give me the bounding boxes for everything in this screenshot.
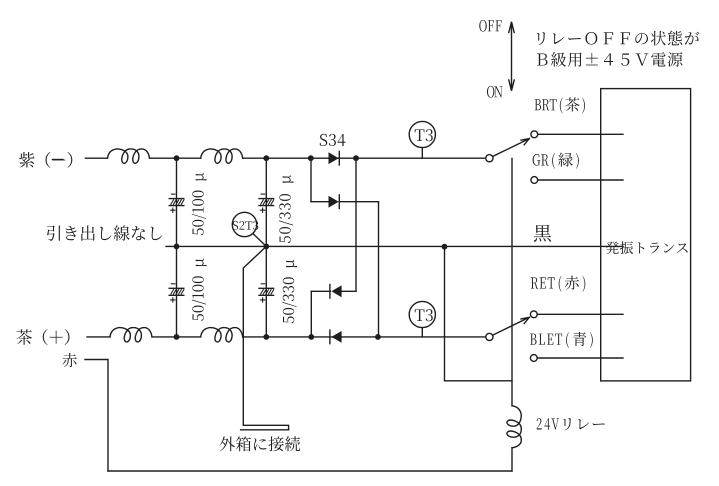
wire: middle rail (no lead-out) <box>166 245 623 247</box>
wire: top rail from purple(-) <box>85 157 485 159</box>
capacitor C4 50/330u <box>259 288 274 295</box>
label no lead-out line <box>47 225 162 240</box>
wire: vertical x=311.3 D3 to bottom rail <box>310 291 312 337</box>
switch SW2 common <box>486 333 493 340</box>
label S34 <box>320 134 346 146</box>
contact BLET <box>530 355 537 362</box>
thermistor T3 top <box>409 121 435 147</box>
value label C1 <box>192 173 207 235</box>
switch SW1 common <box>486 155 493 162</box>
label 24V relay <box>537 418 605 430</box>
note: relay OFF state <box>537 31 699 46</box>
label BRT(brown) <box>535 97 585 113</box>
contact RET <box>530 311 537 318</box>
value label C4 <box>282 260 297 324</box>
inductor L2 <box>201 149 243 163</box>
contact GR <box>531 177 538 184</box>
wire: switch linkage vertical <box>511 159 513 406</box>
diode D4 on bottom rail (reversed) <box>329 330 331 344</box>
inductor L3 <box>110 328 152 342</box>
label oscillation transformer <box>606 241 688 254</box>
wire: bottom return <box>108 470 512 472</box>
wire: red lead <box>85 360 108 472</box>
label GR(green) <box>533 153 579 169</box>
switch SW2 arm <box>493 317 530 335</box>
wire: vertical x=356 top rail to D3 <box>355 158 357 291</box>
diode D3 row (reversed) <box>311 290 356 292</box>
inductor L4 <box>201 328 243 342</box>
value label C3 <box>192 258 207 320</box>
label: connect to outer case <box>220 436 301 451</box>
wire: relay feed <box>445 380 513 382</box>
relay coil <box>507 406 521 448</box>
inductor L1 <box>108 149 150 163</box>
capacitor C1 50/100u <box>169 199 184 206</box>
oscillation transformer box <box>601 89 691 381</box>
label ON <box>487 86 503 98</box>
diode D1 S34 <box>329 152 339 164</box>
chassis bar <box>241 429 289 431</box>
label black wire <box>534 225 551 242</box>
S2T3 circle <box>232 212 256 236</box>
label red <box>63 353 77 367</box>
switch SW1 arm <box>493 139 530 157</box>
thermistor T3 bottom <box>409 301 435 327</box>
wire: chassis branch <box>243 246 288 429</box>
label purple(-) <box>19 152 72 168</box>
value label C2 <box>279 175 294 243</box>
wire: vertical x=311 top to D2 <box>310 158 312 202</box>
label OFF <box>479 20 501 32</box>
diode D2 row <box>311 201 379 203</box>
node junction dots <box>174 155 180 161</box>
label RET(red) <box>531 276 586 292</box>
OFF/ON actuation arrow <box>509 22 514 91</box>
wire: bottom rail from brown(+) <box>87 336 486 338</box>
capacitor C2 50/330u <box>259 199 274 206</box>
wire: filter vertical A x=176.5 <box>176 158 178 337</box>
wire: black tap vertical x=444.5 <box>444 246 446 380</box>
wire: S2T3 lead to node <box>253 233 266 246</box>
contact BRT <box>531 131 538 138</box>
label brown(+) <box>16 329 69 345</box>
note: B-class 45V supply <box>537 52 682 67</box>
wire: vertical x=378.5 D2 to bottom rail <box>378 202 380 337</box>
label BLET(blue) <box>530 332 593 348</box>
wire: filter vertical B x=266.3 <box>265 158 267 337</box>
capacitor C3 50/100u <box>169 288 184 295</box>
